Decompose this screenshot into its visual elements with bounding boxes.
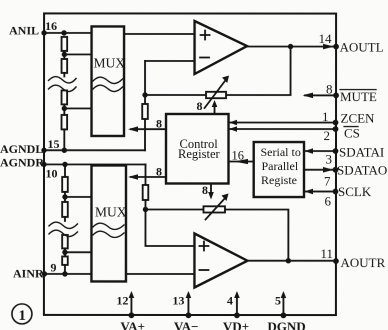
wire tap1 to MUX	[64, 53, 91, 55]
pin 15 node dot	[41, 148, 46, 153]
wire R5 to R6	[64, 192, 66, 202]
wire U4 output to pin 11	[247, 260, 335, 262]
op-amp U4	[194, 234, 247, 288]
svg-text:ZCEN: ZCEN	[341, 111, 376, 126]
resistor R10	[143, 185, 149, 200]
wire summing to U4 plus	[145, 209, 194, 246]
svg-text:VD+: VD+	[223, 319, 249, 330]
svg-text:9: 9	[50, 260, 56, 274]
node chainR-bottom dot	[62, 271, 67, 276]
svg-text:16: 16	[232, 149, 245, 163]
wire control bus to MUX U2	[131, 176, 166, 178]
svg-text:15: 15	[48, 137, 60, 151]
resistor R9	[142, 104, 148, 119]
pin 14 arrowhead	[323, 44, 334, 50]
resistor R2	[62, 59, 68, 73]
pin 2 node dot	[333, 126, 339, 132]
node chainL-bottom dot	[62, 148, 67, 153]
svg-text:2: 2	[324, 128, 331, 143]
pin 14 node dot	[333, 44, 339, 50]
pin 5 power arrow DGND	[282, 294, 284, 315]
wire gain bus L	[214, 104, 216, 114]
wire summing line right channel	[144, 164, 146, 209]
svg-text:DGND: DGND	[267, 319, 305, 330]
pin 6 node dot	[333, 189, 339, 195]
svg-text:Register: Register	[178, 147, 221, 161]
wire gain bus R	[210, 184, 212, 196]
resistor R6	[62, 202, 68, 217]
svg-text:SDATAI: SDATAI	[339, 145, 384, 160]
break squiggle right chain	[49, 222, 78, 228]
node tap2 dot	[62, 106, 67, 111]
svg-text:5: 5	[275, 294, 281, 308]
svg-text:AOUTR: AOUTR	[340, 255, 385, 270]
serial to parallel register U6	[254, 142, 304, 197]
svg-text:MUX: MUX	[95, 204, 127, 219]
pin 9 node dot	[42, 271, 47, 276]
pin 16 node dot	[41, 30, 46, 35]
potentiometer VR1	[206, 92, 226, 98]
svg-text:7: 7	[324, 174, 331, 189]
wire R4 to AGNDL	[63, 129, 65, 150]
pin 13 power arrow VA-	[187, 294, 189, 315]
wire MUX out to op-amp U3 plus	[124, 33, 194, 35]
figure number circled 1	[12, 304, 32, 324]
wire ZCEN pin 1	[230, 122, 336, 124]
pin 10 node dot	[41, 162, 46, 167]
svg-text:8: 8	[156, 116, 162, 130]
wire SDATAI pin 3	[306, 150, 336, 152]
node feedback tap R dot	[143, 207, 148, 212]
wire summing to U3 minus	[145, 60, 195, 62]
node A junction dot	[61, 30, 66, 35]
svg-text:SDATAO: SDATAO	[337, 163, 387, 178]
wire feedback L	[145, 46, 291, 95]
node output R dot	[286, 258, 291, 263]
resistor R5	[62, 177, 68, 192]
svg-text:11: 11	[320, 246, 333, 261]
svg-text:MUX: MUX	[94, 55, 126, 70]
wire SDATAO pin 7	[304, 169, 336, 171]
wire AINR to MUX	[44, 273, 91, 275]
svg-text:14: 14	[319, 31, 333, 46]
svg-text:3: 3	[325, 152, 332, 167]
pin 8 node dot	[333, 92, 339, 98]
wire R6 down	[64, 217, 66, 221]
svg-text:13: 13	[172, 293, 184, 307]
svg-text:CS: CS	[344, 126, 360, 141]
svg-text:SCLK: SCLK	[338, 184, 372, 199]
svg-text:10: 10	[45, 166, 57, 180]
svg-text:VA+: VA+	[120, 319, 145, 330]
node tap3 dot	[62, 194, 67, 199]
potentiometer VR2	[203, 206, 225, 212]
svg-text:ANIL: ANIL	[9, 23, 39, 37]
wire control bus to MUX U1	[131, 128, 166, 130]
wire R7 to R8	[64, 248, 66, 256]
svg-text:Registe: Registe	[261, 173, 297, 187]
svg-text:8: 8	[156, 164, 162, 178]
mux U2	[91, 165, 126, 281]
control register U5	[166, 114, 229, 184]
resistor R1	[62, 37, 68, 51]
pin 4 power arrow VD+	[236, 294, 238, 315]
pin 1 node dot	[333, 120, 339, 126]
wire AINR MUX to op-amp	[126, 273, 194, 275]
svg-text:16: 16	[45, 19, 57, 33]
pin 11 node dot	[333, 258, 339, 264]
wire CS pin 2	[230, 128, 336, 130]
resistor R3	[62, 90, 68, 104]
wire R1 to R2	[63, 51, 65, 59]
svg-text:AGNDL: AGNDL	[0, 142, 43, 156]
svg-text:VA−: VA−	[174, 319, 199, 330]
node tap1 dot	[62, 52, 67, 57]
wire R3 to R4	[63, 104, 65, 115]
wire U3 output to pin 14	[247, 46, 334, 48]
wire R8 to AINR	[64, 265, 66, 274]
wire tap3 to MUX	[65, 196, 92, 198]
wire AGNDR to R5	[64, 164, 66, 177]
svg-text:AINR: AINR	[13, 266, 44, 280]
pin 7 node dot	[333, 167, 339, 173]
wire SCLK pin 6	[306, 190, 336, 192]
break squiggle left chain	[49, 77, 77, 83]
chip outline border	[44, 13, 336, 315]
svg-text:6: 6	[324, 194, 331, 209]
svg-text:Parallel: Parallel	[261, 159, 298, 173]
mux U1	[92, 26, 125, 136]
node feedback tap L dot	[142, 92, 147, 97]
wire feedback R	[145, 209, 288, 260]
svg-text:8: 8	[326, 82, 333, 97]
node chainR-top dot	[62, 162, 67, 167]
svg-text:8: 8	[202, 183, 208, 197]
resistor R4	[62, 115, 68, 130]
wire MUTE pin 8	[305, 94, 336, 96]
pin 3 node dot	[333, 148, 339, 154]
resistor R8	[62, 256, 68, 265]
svg-text:1: 1	[18, 308, 26, 324]
wire tap4 to MUX	[65, 251, 92, 253]
svg-text:Serial to: Serial to	[261, 145, 301, 159]
wire AGNDL	[44, 149, 145, 151]
svg-text:12: 12	[116, 293, 128, 307]
svg-text:AGNDR: AGNDR	[0, 155, 44, 169]
node output L dot	[288, 44, 293, 49]
svg-text:MUTE: MUTE	[340, 89, 377, 104]
wire R2 down	[63, 73, 65, 77]
svg-text:4: 4	[227, 294, 233, 308]
svg-text:8: 8	[197, 99, 203, 113]
svg-text:1: 1	[322, 109, 329, 124]
pin 12 power arrow VA+	[130, 294, 132, 315]
wire 16-bit bus U6 to U5	[229, 161, 254, 163]
resistor R7	[62, 235, 68, 249]
wire summing line left channel	[144, 61, 146, 150]
wire tap2 to MUX	[64, 107, 91, 109]
wire ANIL to MUX	[44, 32, 91, 34]
op-amp U3	[195, 21, 248, 74]
node tap4 dot	[62, 250, 67, 255]
wire AGNDR	[44, 163, 145, 165]
svg-text:AOUTL: AOUTL	[340, 40, 384, 55]
